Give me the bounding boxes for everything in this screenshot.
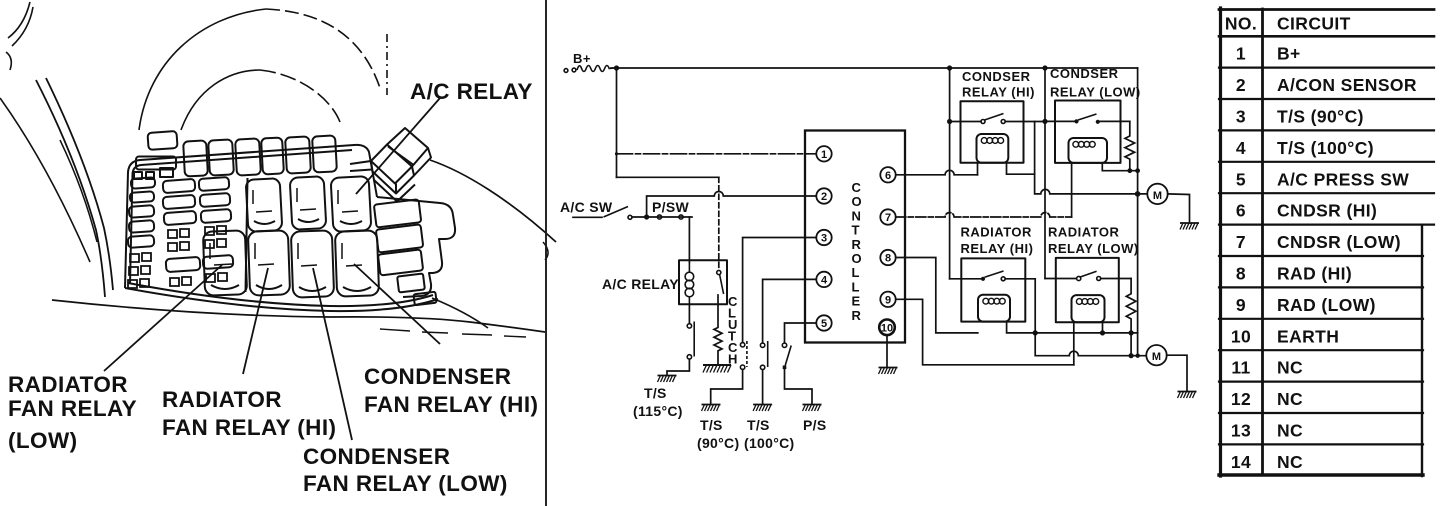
pin 8	[880, 250, 895, 265]
small relay row 6	[312, 135, 337, 172]
pin 4	[816, 272, 831, 287]
B+ rail wire	[611, 67, 1138, 69]
ground condenser motor	[1180, 223, 1199, 230]
junction condenser motor feed	[1135, 191, 1141, 197]
svg-text:CONDENSER: CONDENSER	[364, 364, 511, 389]
junction radiator HI node	[1033, 330, 1038, 335]
svg-text:RELAY (LOW): RELAY (LOW)	[1050, 85, 1141, 100]
table outer left border	[1219, 8, 1222, 476]
svg-text:R: R	[852, 237, 862, 252]
fuse box right cover profile	[377, 197, 455, 297]
svg-text:4: 4	[1236, 138, 1246, 158]
table row line 5	[1219, 192, 1434, 194]
svg-text:M: M	[1152, 351, 1161, 363]
wire B+ to A/C relay switch drop (dashed)	[718, 177, 720, 270]
fuse box inner divider	[246, 178, 248, 292]
ground T/S 90	[702, 405, 721, 412]
T/S (90C) switch bottom contact	[740, 365, 744, 369]
svg-text:O: O	[852, 251, 863, 266]
svg-text:H: H	[728, 352, 738, 367]
svg-text:FAN RELAY: FAN RELAY	[8, 396, 137, 421]
svg-text:A/C RELAY: A/C RELAY	[602, 276, 679, 292]
body curl right	[543, 242, 548, 260]
ground pin 10	[879, 368, 898, 375]
P/S switch blade	[785, 346, 791, 366]
junction B+/condenser LOW feed	[1042, 65, 1047, 70]
A/C relay cube front band	[371, 161, 415, 202]
svg-text:R: R	[852, 308, 862, 323]
A/C relay coil	[688, 262, 690, 272]
junction pin1 tap	[615, 152, 618, 155]
svg-text:P/SW: P/SW	[652, 199, 689, 215]
condenser dropping resistor	[1125, 121, 1135, 170]
P/S switch bottom contact	[783, 366, 787, 370]
T/S (100C) switch bottom contact	[760, 365, 764, 369]
leader line radiator fan relay HI	[243, 268, 268, 374]
ground T/S 100	[753, 405, 772, 412]
svg-text:NC: NC	[1277, 389, 1303, 409]
wire A/C SW to P/SW	[632, 216, 692, 218]
svg-text:7: 7	[1236, 232, 1246, 252]
right stack relay 1	[374, 199, 421, 227]
table row line 11	[1219, 381, 1423, 383]
svg-text:A/CON SENSOR: A/CON SENSOR	[1277, 75, 1417, 95]
relay detail marks	[210, 188, 362, 266]
right small block	[397, 273, 425, 292]
fuse column B row 1	[163, 179, 196, 193]
wire to pin 1	[617, 153, 817, 155]
wire radiator motor to ground	[1167, 355, 1187, 391]
wire B+ drop	[616, 68, 618, 177]
P/SW pressure switch contacts	[657, 215, 661, 219]
svg-text:(90°C): (90°C)	[697, 435, 739, 451]
svg-text:RADIATOR: RADIATOR	[8, 372, 128, 397]
svg-text:RELAY (HI): RELAY (HI)	[961, 241, 1034, 256]
connector top-left	[136, 157, 176, 170]
centerline dash-dot	[386, 34, 388, 95]
table row line 6	[1219, 224, 1434, 226]
svg-text:RADIATOR: RADIATOR	[961, 225, 1033, 240]
T/S (115C) switch bottom contact	[687, 355, 691, 359]
svg-text:11: 11	[1231, 358, 1250, 378]
svg-text:6: 6	[885, 170, 891, 182]
wire pin 9 to radiator LOW coil	[896, 299, 1074, 365]
wire condenser motor to ground	[1168, 194, 1190, 223]
pin 3	[816, 230, 831, 245]
svg-text:3: 3	[821, 233, 827, 245]
radiator HI coil lead right	[1007, 322, 1036, 333]
radiator LOW relay box	[1056, 258, 1119, 322]
table row line 7	[1219, 255, 1423, 257]
table top border	[1219, 8, 1434, 11]
svg-text:3: 3	[1236, 107, 1246, 127]
condenser LOW relay box	[1055, 101, 1121, 163]
T/S (100C) switch top contact	[760, 343, 764, 347]
svg-text:E: E	[852, 294, 861, 309]
svg-text:9: 9	[885, 294, 891, 306]
svg-text:1: 1	[821, 149, 827, 161]
ground radiator motor	[1178, 392, 1197, 399]
radiator dropping resistor	[1126, 279, 1136, 356]
right stack relay 3	[378, 249, 423, 275]
wire P/S to ground	[785, 369, 813, 404]
pin 7	[880, 209, 895, 224]
condenser HI relay box	[961, 101, 1024, 163]
fuse column A	[131, 177, 156, 189]
pin 5	[816, 315, 831, 330]
radiator LOW relay coil	[1076, 299, 1098, 305]
svg-text:T/S (90°C): T/S (90°C)	[1277, 107, 1364, 127]
A/C relay cube right band	[412, 148, 431, 176]
junction resistor bottom	[1127, 168, 1132, 173]
radiator fan motor M	[1146, 345, 1166, 365]
svg-text:T/S: T/S	[747, 417, 770, 433]
controller box U1	[805, 131, 905, 343]
svg-text:RADIATOR: RADIATOR	[162, 387, 282, 412]
A/C relay cube shelf lines	[350, 161, 372, 171]
A/C relay cube left face	[371, 145, 412, 184]
junction condenser HI switch feed	[947, 119, 952, 124]
svg-text:T/S: T/S	[644, 385, 667, 401]
pin 9	[880, 292, 895, 307]
right small tab	[413, 292, 436, 306]
condenser HI relay switch	[981, 120, 985, 124]
junction P/SW feed	[644, 214, 649, 219]
radiator LOW relay coil box	[1072, 295, 1105, 322]
svg-text:CNDSR (HI): CNDSR (HI)	[1277, 201, 1377, 221]
wire pin 7 to condenser LOW coil (two hops)	[896, 213, 1072, 218]
wire P/SW to A/C relay coil drop	[688, 217, 690, 262]
condenser LOW relay switch wire	[1045, 120, 1075, 122]
svg-text:8: 8	[885, 253, 891, 265]
junction condenser LOW switch feed	[1042, 119, 1047, 124]
table row line 4	[1219, 161, 1434, 163]
svg-text:14: 14	[1231, 452, 1251, 472]
svg-text:B+: B+	[573, 51, 591, 66]
B+ terminal and fuse squiggle	[564, 69, 568, 73]
svg-text:M: M	[1153, 190, 1162, 202]
condenser LOW coil lead right to B+	[1102, 163, 1137, 171]
table row line 2	[1219, 98, 1434, 100]
fender inner stroke	[60, 140, 97, 242]
fender curve 1	[36, 80, 105, 297]
junction B+/down	[614, 65, 619, 70]
svg-text:6: 6	[1236, 201, 1246, 221]
svg-text:RAD (HI): RAD (HI)	[1277, 264, 1352, 284]
svg-text:T/S: T/S	[700, 417, 723, 433]
big relay top row 3	[331, 176, 372, 232]
P/S switch top contact	[782, 343, 786, 347]
condenser HI coil lead left	[977, 163, 979, 175]
small relay row 4	[261, 137, 284, 174]
wire T/S 115 to ground	[667, 359, 689, 375]
big relay bottom row 1	[203, 230, 247, 295]
leader line A/C relay	[356, 98, 440, 194]
box corner to cowl curve	[432, 298, 488, 328]
svg-text:5: 5	[821, 318, 827, 330]
junction radiator resistor bottom	[1129, 353, 1134, 358]
small relay row 2	[208, 139, 234, 175]
condenser LOW coil lead left	[1071, 163, 1073, 217]
svg-text:10: 10	[1231, 326, 1251, 346]
condenser HI output drop to motor line	[1035, 122, 1147, 194]
condenser HI relay coil box	[977, 134, 1009, 163]
svg-text:N: N	[852, 208, 862, 223]
svg-text:CONDSER: CONDSER	[1050, 66, 1119, 81]
table row line 3	[1219, 129, 1434, 131]
svg-text:FAN RELAY (HI): FAN RELAY (HI)	[364, 392, 538, 417]
table bottom border	[1219, 473, 1423, 476]
junction B+/condenser HI feed	[947, 65, 952, 70]
strut tower inner arc	[181, 70, 260, 130]
svg-text:CIRCUIT: CIRCUIT	[1277, 14, 1351, 34]
big relay top row 2	[290, 176, 327, 230]
pin 10	[879, 320, 895, 336]
cowl dashes	[380, 329, 526, 337]
svg-text:O: O	[852, 194, 863, 209]
fuse column A small pairs	[128, 253, 151, 288]
svg-text:NC: NC	[1277, 452, 1303, 472]
condenser LOW relay coil	[1073, 141, 1095, 147]
T/S (90C) switch blade	[746, 341, 748, 367]
pin 6	[880, 167, 895, 182]
fuse column B small pairs	[168, 226, 226, 251]
svg-text:2: 2	[1236, 75, 1246, 95]
CLUTCH coil (zigzag)	[714, 304, 722, 365]
condenser LOW feed drop from B+	[1044, 68, 1046, 279]
table row line 1	[1219, 66, 1434, 68]
box top-left tab	[147, 131, 177, 150]
fuse box bottom rim inner	[128, 283, 433, 306]
wire pin 10 to ground	[886, 335, 888, 367]
condenser HI relay coil	[981, 138, 1003, 144]
condenser LOW relay switch	[1074, 119, 1078, 123]
table right border	[1421, 225, 1423, 476]
svg-text:(115°C): (115°C)	[633, 403, 683, 419]
T/S (100C) switch blade	[767, 341, 769, 367]
condenser fan motor M	[1147, 184, 1167, 204]
T/S (90C) switch top contact	[740, 343, 744, 347]
radiator HI relay switch wire	[950, 278, 981, 280]
big relay bottom row 3	[291, 230, 334, 297]
T/S (115C) switch blade	[693, 322, 695, 357]
radiator HI switch output wire	[1005, 278, 1035, 280]
table header separator	[1219, 35, 1434, 38]
radiator HI relay coil box	[978, 295, 1010, 322]
svg-text:T: T	[852, 223, 860, 238]
svg-text:EARTH: EARTH	[1277, 326, 1339, 346]
svg-text:A/C PRESS SW: A/C PRESS SW	[1277, 169, 1409, 189]
svg-text:RAD (LOW): RAD (LOW)	[1277, 295, 1376, 315]
svg-text:7: 7	[885, 212, 891, 224]
radiator LOW relay switch	[1077, 276, 1081, 280]
fuse column B row 3	[164, 211, 197, 225]
pin 1	[816, 146, 831, 161]
small relay row 5	[285, 136, 311, 173]
wire P/SW to pin 2 with hop	[647, 192, 817, 218]
strut tower outer arc	[139, 9, 266, 130]
fender edge from image border	[0, 98, 90, 262]
A/C SW switch	[573, 216, 602, 218]
wire pin 4 to T/S 100	[763, 279, 817, 343]
svg-text:L: L	[852, 279, 860, 294]
condenser LOW relay coil box	[1069, 138, 1108, 163]
svg-text:12: 12	[1231, 389, 1251, 409]
svg-text:A/C RELAY: A/C RELAY	[410, 79, 533, 104]
svg-text:RADIATOR: RADIATOR	[1048, 225, 1120, 240]
cowl line under box	[52, 300, 545, 332]
svg-text:T/S (100°C): T/S (100°C)	[1277, 138, 1374, 158]
svg-text:13: 13	[1231, 421, 1251, 441]
wire T/S 100 to ground	[762, 370, 764, 405]
table column divider	[1261, 9, 1264, 475]
radiator LOW coil lead right	[1102, 322, 1104, 333]
top row relay bottom arcs	[254, 219, 362, 224]
ground T/S 115	[658, 376, 677, 383]
A/C relay switch blade	[720, 275, 724, 295]
wire T/S 90 to ground	[711, 370, 743, 405]
svg-text:9: 9	[1236, 295, 1246, 315]
junction radiator resistor mid	[1129, 330, 1134, 335]
fuse column B row bottom	[166, 257, 201, 272]
svg-text:4: 4	[821, 274, 828, 286]
svg-text:CNDSR (LOW): CNDSR (LOW)	[1277, 232, 1401, 252]
wire A/C relay coil to T/S 115	[688, 304, 690, 323]
svg-text:C: C	[852, 180, 862, 195]
table row line 12	[1219, 412, 1423, 414]
radiator LOW relay switch wire	[1045, 278, 1077, 280]
body corner squiggle top-left	[6, 2, 33, 70]
pin 2	[816, 188, 831, 203]
svg-text:10: 10	[881, 322, 893, 334]
fuse box bottom rim	[125, 288, 438, 311]
svg-text:2: 2	[821, 191, 827, 203]
body line right of box	[430, 160, 556, 242]
svg-text:B+: B+	[1277, 44, 1301, 64]
condenser HI feed drop from B+	[949, 68, 951, 279]
big relay bottom row 4	[335, 230, 379, 296]
wire pin 8 to radiator HI coil	[896, 258, 978, 333]
svg-text:P/S: P/S	[803, 417, 826, 433]
svg-text:RELAY (LOW): RELAY (LOW)	[1048, 241, 1139, 256]
svg-text:FAN RELAY (LOW): FAN RELAY (LOW)	[303, 471, 508, 496]
svg-text:CONDSER: CONDSER	[962, 69, 1031, 84]
svg-text:5: 5	[1236, 169, 1246, 189]
svg-text:L: L	[852, 265, 860, 280]
connector pins	[134, 172, 142, 179]
radiator HI relay switch	[981, 277, 985, 281]
junction coil common B+	[1135, 168, 1140, 173]
radiator LOW coil lead left (to pin 9)	[1073, 322, 1075, 365]
radiator coil common wire	[1035, 332, 1138, 334]
svg-text:(LOW): (LOW)	[8, 428, 77, 453]
svg-text:(100°C): (100°C)	[744, 435, 795, 451]
leader line condenser fan relay HI	[354, 264, 440, 344]
svg-text:8: 8	[1236, 264, 1246, 284]
condenser HI relay switch wire	[950, 121, 981, 123]
A/C relay switch lower lead	[717, 295, 719, 304]
condenser HI coil lead right	[1007, 163, 1035, 174]
radiator HI relay coil	[983, 298, 1005, 304]
A/C relay cube top divider	[388, 147, 413, 165]
ground clutch	[703, 365, 731, 373]
right stack relay 2	[376, 224, 423, 252]
table row line 13	[1219, 443, 1423, 445]
leader line condenser fan relay LOW	[313, 268, 352, 440]
svg-text:1: 1	[1236, 44, 1246, 64]
junction radiator motor feed	[1136, 354, 1140, 358]
table row line 10	[1219, 349, 1423, 351]
svg-text:NC: NC	[1277, 421, 1303, 441]
wire pin 3 to T/S 90	[743, 238, 817, 343]
radiator HI relay box	[961, 258, 1025, 321]
ground P/S	[803, 405, 822, 412]
A/C relay cube top face	[387, 128, 428, 167]
radiator HI output drop to motor line	[1035, 279, 1146, 356]
wire B+ to A/C relay switch horizontal	[617, 176, 719, 178]
svg-text:FAN RELAY (HI): FAN RELAY (HI)	[162, 415, 336, 440]
svg-text:NC: NC	[1277, 358, 1303, 378]
big relay top row 1	[246, 178, 283, 232]
table row line 9	[1219, 318, 1423, 320]
svg-text:A/C SW: A/C SW	[560, 199, 613, 215]
radiator LOW switch output wire	[1101, 278, 1131, 280]
A/C relay switch contact	[717, 270, 721, 274]
fender curve 2	[46, 78, 113, 290]
svg-text:NO.: NO.	[1225, 14, 1257, 34]
svg-text:RELAY (HI): RELAY (HI)	[962, 85, 1035, 100]
svg-text:CONDENSER: CONDENSER	[303, 444, 450, 469]
A/C relay box	[679, 260, 727, 304]
B+ rail right drop	[1137, 68, 1139, 356]
small relay row 3	[235, 138, 261, 175]
wire pin 5 to P/S	[785, 323, 817, 343]
fuse box outline	[125, 145, 377, 288]
small relay row 1	[183, 140, 208, 176]
fuse column B row 2	[163, 195, 196, 209]
T/S (115C) switch top contact	[687, 324, 691, 328]
table row line 8	[1219, 286, 1423, 288]
big relay bottom row 2	[248, 230, 290, 295]
junction radiator LOW coil common	[1100, 330, 1105, 335]
leader line radiator fan relay LOW	[104, 265, 222, 371]
condenser LOW switch output wire	[1100, 120, 1130, 122]
page seam line	[545, 0, 547, 506]
condenser HI switch output wire	[1005, 121, 1045, 123]
wire pin 6 to condenser HI coil (hop at B+ drop)	[896, 170, 978, 175]
